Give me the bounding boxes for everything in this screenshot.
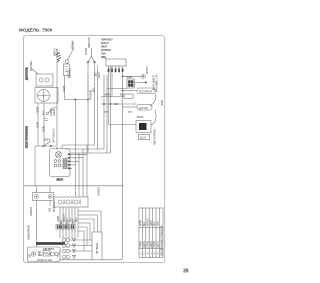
wire staircase right 3 xyxy=(78,219,94,232)
wire staircase right 6 xyxy=(78,231,84,251)
wire ladder 153 xyxy=(70,152,111,154)
wire TB1 right drop xyxy=(49,186,51,206)
svg-text:РОЗЕТКА: РОЗЕТКА xyxy=(53,201,56,212)
svg-text:БЕЛ: БЕЛ xyxy=(76,217,78,222)
wire CN1-3 xyxy=(103,75,105,149)
panel fuse label dark xyxy=(38,253,43,258)
wire vertical k87 xyxy=(86,145,88,197)
svg-text:ЖЕЛТ: ЖЕЛТ xyxy=(67,217,69,224)
svg-text:ПРОВ: ПРОВ xyxy=(147,241,149,248)
connector pins dark xyxy=(108,69,124,72)
svg-text:ЦЕПЬ: ЦЕПЬ xyxy=(158,241,160,248)
wire vertical k83 xyxy=(82,149,84,197)
wire to terminal xyxy=(123,75,142,77)
svg-text:ЧЕРН: ЧЕРН xyxy=(38,106,40,113)
wire key harness 2 xyxy=(70,157,83,159)
wire magneto lead A xyxy=(37,103,39,146)
wire TB1 left drop xyxy=(36,186,38,247)
wire key harness 5 xyxy=(70,167,72,169)
svg-text:РЕГУЛЯТОР: РЕГУЛЯТОР xyxy=(139,91,153,93)
wire rectifier up curve xyxy=(151,110,156,125)
svg-text:ЧЕРН/БЕЛ: ЧЕРН/БЕЛ xyxy=(101,40,113,42)
svg-text:ВЫКЛ: ВЫКЛ xyxy=(127,77,134,79)
oil level switch S3 xyxy=(44,108,57,121)
circuit breaker CB1 xyxy=(92,232,102,260)
svg-text:АВТ ВЫКЛ: АВТ ВЫКЛ xyxy=(96,242,99,254)
svg-text:ЖЕЛТ: ЖЕЛТ xyxy=(151,219,153,226)
wire staircase right 4 xyxy=(78,223,90,240)
wire vertical k79 xyxy=(78,153,80,197)
wire H107 xyxy=(122,106,137,108)
svg-text:ДАТЧИК: ДАТЧИК xyxy=(139,107,148,110)
rectifier D1 xyxy=(136,121,151,133)
svg-text:ЧЕРН: ЧЕРН xyxy=(104,95,111,97)
wire switch to ground xyxy=(34,146,36,186)
wire staircase right 2 xyxy=(78,215,98,232)
svg-text:РОЗЕТКА 12В: РОЗЕТКА 12В xyxy=(37,259,52,262)
svg-text:ДВИГАТЕЛЬ: ДВИГАТЕЛЬ xyxy=(26,67,29,80)
svg-text:КАТУШКА: КАТУШКА xyxy=(30,60,33,71)
svg-text:БЕЛ: БЕЛ xyxy=(120,95,125,97)
svg-text:БЕЛ: БЕЛ xyxy=(44,110,46,115)
tiny labels mid bottom xyxy=(28,186,101,262)
svg-text:ДАТЧ МАСЛА: ДАТЧ МАСЛА xyxy=(53,128,56,143)
stator wire labels xyxy=(96,71,102,78)
wire coil HT diagonal xyxy=(31,68,38,74)
svg-text:ВЫПР: ВЫПР xyxy=(137,117,144,119)
tiny labels switch area xyxy=(38,106,56,143)
exciter sensor E1 xyxy=(64,41,74,76)
svg-text:СИН: СИН xyxy=(101,54,106,56)
receptacle R1 xyxy=(62,238,75,242)
legend table texts xyxy=(140,218,163,256)
svg-text:БЕЛ: БЕЛ xyxy=(144,221,146,226)
wire key harness 4 xyxy=(70,164,76,166)
svg-text:МОДЕЛЬ: 7500: МОДЕЛЬ: 7500 xyxy=(19,28,53,33)
svg-text:КРАСН: КРАСН xyxy=(63,214,66,222)
svg-text:ЦЕПЬ: ЦЕПЬ xyxy=(151,241,153,248)
wire horizontal H88 xyxy=(107,88,127,90)
wire connector diagonal xyxy=(103,56,106,59)
connector CN1 xyxy=(106,59,126,73)
svg-text:ВЫКЛ: ВЫКЛ xyxy=(44,140,51,142)
wire CN1-2 xyxy=(111,73,113,97)
svg-text:КЛЮЧ: КЛЮЧ xyxy=(57,180,64,182)
svg-text:39: 39 xyxy=(183,269,189,275)
legend table xyxy=(139,208,163,258)
svg-text:12В ПОСТ: 12В ПОСТ xyxy=(43,249,55,251)
svg-text:БЕЛ: БЕЛ xyxy=(94,87,96,92)
wire key harness 3 xyxy=(70,160,79,162)
svg-text:ЗАЗЕМЛЕНИЕ: ЗАЗЕМЛЕНИЕ xyxy=(28,224,31,240)
svg-text:ЧЕРН: ЧЕРН xyxy=(44,125,46,132)
svg-text:ЧЕРН: ЧЕРН xyxy=(58,215,60,222)
svg-text:ГЕНЕР: ГЕНЕР xyxy=(86,47,88,55)
regulator pill A xyxy=(137,88,155,94)
svg-text:КРАСН: КРАСН xyxy=(146,66,149,74)
wire horizontal H104 xyxy=(101,103,137,105)
DC outlet circle xyxy=(31,252,35,256)
svg-text:ЗАЖИГ: ЗАЖИГ xyxy=(53,107,56,116)
wire long vertical V3 xyxy=(110,66,112,153)
key switch K1 xyxy=(50,149,71,177)
charge socket block CN2 xyxy=(54,197,88,207)
wire main ground bus xyxy=(24,185,124,187)
terminal block TB1 xyxy=(33,193,54,201)
wire ladder 145 xyxy=(62,145,95,149)
wire bundle to panel xyxy=(60,207,78,238)
svg-text:СИН: СИН xyxy=(73,219,75,224)
svg-text:10А: 10А xyxy=(38,254,43,257)
svg-text:ЖЕЛТ: ЖЕЛТ xyxy=(101,47,108,49)
receptacle R2 xyxy=(62,244,75,248)
wire long vertical V1 xyxy=(96,66,98,149)
engine stop switch S1 xyxy=(35,141,56,147)
svg-text:ЗЕЛ/БЕЛ: ЗЕЛ/БЕЛ xyxy=(101,50,111,52)
svg-text:ОБОЗНАЧЕНИЕ ПРОВОДОВ: ОБОЗНАЧЕНИЕ ПРОВОДОВ xyxy=(160,225,163,256)
wire vertical k75 xyxy=(75,100,77,198)
spark plug P1 xyxy=(56,53,62,63)
svg-text:ЧЕРН: ЧЕРН xyxy=(141,219,143,226)
wire staircase right 1 xyxy=(78,211,101,232)
wire reg curve xyxy=(150,93,156,107)
wire ladder 149 xyxy=(66,148,104,151)
wire stator Y split xyxy=(88,48,95,62)
svg-text:БЕЛ: БЕЛ xyxy=(114,104,119,106)
svg-text:ЧЕРН: ЧЕРН xyxy=(162,99,164,106)
ground bus bar xyxy=(36,242,65,245)
svg-text:12В: 12В xyxy=(30,253,32,258)
connector end box C xyxy=(70,225,75,230)
key switch pins xyxy=(68,154,70,170)
tiny labels upper left xyxy=(30,36,96,100)
tiny label column CN1 xyxy=(101,40,113,60)
svg-text:БЕЛ: БЕЛ xyxy=(101,57,106,59)
rectifier label plate xyxy=(139,135,150,140)
svg-text:ПРОВ: ПРОВ xyxy=(154,241,156,248)
pilot lamp box xyxy=(43,251,50,257)
svg-text:БЛОК УПРАВЛЕНИЯ: БЛОК УПРАВЛЕНИЯ xyxy=(26,126,29,148)
diagram frame xyxy=(24,36,165,263)
fuse holder circles xyxy=(51,251,61,258)
connector end box A xyxy=(56,225,62,230)
svg-text:ЗАЗЕМЛ: ЗАЗЕМЛ xyxy=(98,186,101,196)
wire spark plug lead xyxy=(56,62,58,150)
svg-text:ЧЕРН: ЧЕРН xyxy=(64,85,66,92)
svg-text:ЗАМОК: ЗАМОК xyxy=(50,108,53,116)
svg-text:СВЕЧА: СВЕЧА xyxy=(54,48,57,56)
svg-text:КРАСН: КРАСН xyxy=(146,218,149,226)
svg-text:КРАСН: КРАСН xyxy=(101,42,109,45)
wire branch x88 xyxy=(87,100,89,154)
svg-text:ЗЕЛ: ЗЕЛ xyxy=(70,217,72,222)
control panel box xyxy=(28,247,61,262)
svg-text:ПРОВ: ПРОВ xyxy=(141,241,143,248)
wire fuse stub xyxy=(69,68,71,78)
wire panel bottom xyxy=(60,259,92,261)
wire L stub xyxy=(65,76,89,100)
svg-text:КРАСН/БЕЛ 0.85: КРАСН/БЕЛ 0.85 xyxy=(155,74,158,92)
tiny labels right column xyxy=(104,66,164,145)
svg-text:ЗАЖИГ: ЗАЖИГ xyxy=(56,47,59,56)
svg-text:ОВЦ-04 КРАСН: ОВЦ-04 КРАСН xyxy=(154,128,157,145)
receptacle R3 xyxy=(62,249,75,253)
wire stator 2 xyxy=(94,62,96,145)
svg-text:ЦЕПЬ: ЦЕПЬ xyxy=(144,241,146,248)
wire horizontal H96 xyxy=(101,96,124,98)
terminal ring T+ xyxy=(142,74,146,78)
regulator pill B xyxy=(137,105,152,111)
engine switch SW2 xyxy=(127,79,135,88)
svg-text:ОБМОТКА: ОБМОТКА xyxy=(88,36,91,48)
wire staircase right 5 xyxy=(78,227,87,246)
wire rectifier feed xyxy=(109,124,137,126)
svg-text:ПРОВ ВВ: ПРОВ ВВ xyxy=(91,90,93,100)
svg-text:ПРЕД: ПРЕД xyxy=(44,254,51,256)
svg-text:ДАТЧИК: ДАТЧИК xyxy=(72,41,75,50)
svg-text:МАСЛО: МАСЛО xyxy=(68,70,71,78)
wire magneto lead B xyxy=(43,103,45,146)
svg-text:12В: 12В xyxy=(50,207,52,212)
svg-text:ВЫКЛ ДВИГАТ: ВЫКЛ ДВИГАТ xyxy=(152,74,155,90)
svg-text:СИН: СИН xyxy=(158,221,160,226)
svg-text:ЗЕЛ: ЗЕЛ xyxy=(154,221,156,226)
wire CN1-5 xyxy=(102,73,123,260)
svg-text:ЧЕРН: ЧЕРН xyxy=(38,121,40,128)
ignition coil T1 xyxy=(36,74,53,86)
wire SW2 out mid arrow xyxy=(135,81,148,83)
wire breaker feeds xyxy=(70,240,92,251)
wire CN1-1 xyxy=(108,73,110,125)
svg-text:Д-104: Д-104 xyxy=(140,137,147,139)
svg-text:ЖЕЛТ: ЖЕЛТ xyxy=(99,71,101,78)
receptacle R4 xyxy=(62,255,75,259)
svg-text:БЕЛ: БЕЛ xyxy=(61,219,63,224)
wire key harness 1 xyxy=(70,153,87,155)
connector end box B xyxy=(64,225,69,230)
wire reg feed xyxy=(123,90,137,92)
wire CN1-4 xyxy=(106,75,108,153)
flywheel magneto M xyxy=(35,88,58,104)
wire stator 1 xyxy=(87,62,89,100)
small box H96 xyxy=(124,94,133,98)
svg-text:БЕЛ: БЕЛ xyxy=(96,71,98,76)
svg-text:ЗАЗЕМЛ: ЗАЗЕМЛ xyxy=(30,206,33,216)
